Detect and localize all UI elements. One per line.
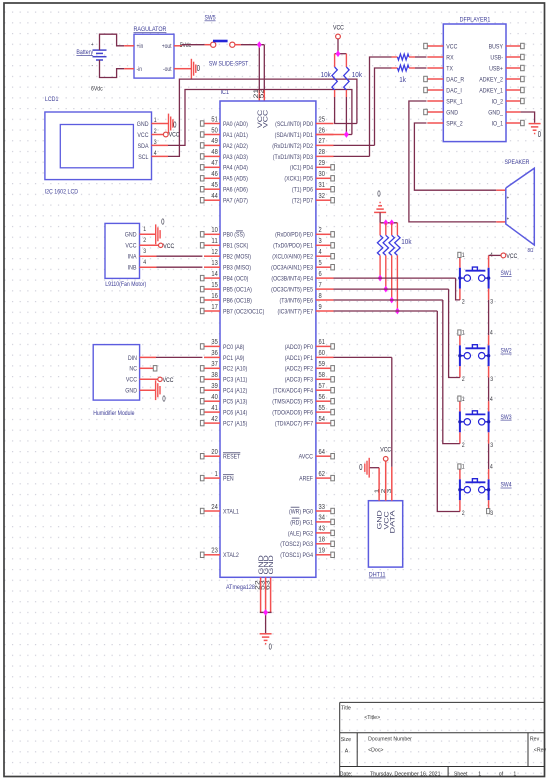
svg-text:13: 13 [211,258,217,267]
svg-text:55: 55 [319,403,325,412]
svg-text:PA7 (AD7): PA7 (AD7) [223,198,248,205]
DHT11 VCC pin [380,446,391,500]
junction at IC1 ground [263,609,268,616]
svg-text:PEN: PEN [223,476,234,483]
svg-text:GND: GND [268,554,275,574]
IC1 pin 33 (WR) PG0 [289,502,334,516]
svg-text:PB5 (OC1A): PB5 (OC1A) [223,287,252,294]
svg-text:(SCL/INT0) PD0: (SCL/INT0) PD0 [275,121,313,128]
svg-text:DATA: DATA [390,509,397,533]
junction R2 at PD1 [344,131,349,138]
svg-text:50: 50 [211,125,217,134]
IC1 pin 11 PB1 (SCK) [200,236,248,250]
wire resistor bank top bus [380,222,397,224]
IC1 pin 43 (ALE) PG2 [288,524,335,538]
IC1 pin 19 (TOSC1) PG4 [280,546,334,560]
svg-text:VCC: VCC [446,43,457,50]
svg-text:64: 64 [319,447,325,456]
svg-text:12: 12 [211,247,217,256]
wire SW2 pin3 to SW3 pin4 [488,378,490,402]
svg-text:AREF: AREF [299,476,313,483]
svg-text:(ALE) PG2: (ALE) PG2 [288,530,313,537]
svg-text:44: 44 [211,191,217,200]
svg-text:2: 2 [462,510,465,517]
IC1 pin 10 PB0 (SS) [200,225,244,239]
svg-text:(TMS/ADC5) PF5: (TMS/ADC5) PF5 [272,399,313,406]
svg-text:36: 36 [211,348,217,357]
wire DFPLAYER GND_ to ground [521,112,535,123]
svg-text:<Rev: <Rev [534,748,546,754]
svg-text:0: 0 [359,463,363,472]
wire DIN to IC1 PC1 [140,356,203,358]
svg-text:SW4: SW4 [501,482,512,489]
label ATmega128 [226,584,255,591]
switch SW1 pushbutton [458,252,512,305]
svg-text:15: 15 [211,280,217,289]
svg-text:(OC3A/AIN1) PE3: (OC3A/AIN1) PE3 [271,265,313,272]
svg-text:43: 43 [319,524,325,533]
IC1 pin 57 (TCK/ADC4) PF4 [273,381,335,395]
svg-text:GND: GND [446,109,458,116]
svg-text:0: 0 [538,130,542,139]
IC U2 DFPLAYER1 body [443,17,506,142]
svg-text:16: 16 [211,291,217,300]
svg-text:0: 0 [173,120,177,129]
sensor U5 DHT11 body [368,489,402,579]
svg-text:SW1: SW1 [501,270,512,277]
wire pull-up top bus [335,53,347,55]
svg-text:(XCL0/AIN0) PE2: (XCL0/AIN0) PE2 [272,254,313,261]
wire SW3 pin3 to SW4 pin4 [488,444,490,470]
DFPLAYER1 right pin ADKEY_1 [479,87,524,94]
IC1 pin 6 (OC3B/INT4) PE4 [271,269,333,283]
svg-text:61: 61 [319,337,325,346]
svg-text:2: 2 [462,442,465,449]
IC1 pin 48 PA3 (AD3) [200,147,248,161]
wire PD0 row to SCL vertical [334,123,357,125]
resistor R1 10k (SCL pull-up) [321,54,338,124]
svg-text:A: A [345,748,349,754]
svg-text:IO_1: IO_1 [492,120,504,127]
svg-text:PC7 (A15): PC7 (A15) [223,421,247,428]
IC1 pin 28 (TxD1/INT3) PD3 [273,147,334,161]
resistor R2 10k (SDA pull-up) [344,54,363,135]
svg-text:PA4 (AD4): PA4 (AD4) [223,165,248,172]
svg-text:VCC: VCC [380,446,391,453]
svg-text:ATmega128: ATmega128 [226,584,255,591]
svg-text:SW5: SW5 [205,15,216,22]
IC1 pin 62 AREF [299,469,334,483]
junction R7 at PE6 [389,297,394,304]
svg-text:PC1 (A9): PC1 (A9) [223,355,244,362]
IC1 pin 64 AVCC [299,447,335,461]
svg-text:41: 41 [211,403,217,412]
wire R4 to DFPLAYER TX [415,67,427,69]
module U4 Humidifier body [93,345,139,417]
svg-text:SPEAKER: SPEAKER [505,159,530,166]
IC1 pin 27 (RxD1/INT2) PD2 [272,136,333,150]
DFPLAYER1 left pin GND [424,109,458,116]
svg-text:SCL: SCL [138,154,149,161]
svg-text:0: 0 [197,64,201,73]
DFPLAYER1 left pin DAC_R [424,76,465,83]
svg-text:PA0 (AD0): PA0 (AD0) [223,121,248,128]
svg-text:SW2: SW2 [501,348,512,355]
svg-text:VCC: VCC [163,377,174,384]
IC1 pin 59 (ADC2) PF2 [285,359,335,373]
svg-text:3: 3 [490,376,493,383]
svg-text:11: 11 [211,236,217,245]
svg-text:GND_: GND_ [488,109,503,116]
svg-text:PC0 (A8): PC0 (A8) [223,344,244,351]
DFPLAYER1 right pin ADKEY_2 [479,76,524,83]
svg-text:17: 17 [211,302,217,311]
svg-text:<Doc>: <Doc> [368,748,384,754]
svg-text:INB: INB [128,265,137,272]
switch SW2 pushbutton [458,330,512,383]
svg-text:(ADC3) PF3: (ADC3) PF3 [285,377,314,384]
svg-text:1k: 1k [399,77,406,84]
wire INB to IC1 PB3 [140,266,203,268]
wire RxD: IC1 PD3 to R3 [334,57,392,156]
svg-text:1: 1 [513,771,516,777]
junction R5 at PE4 [378,275,383,282]
svg-text:(XCK1) PD5: (XCK1) PD5 [284,176,313,183]
svg-text:PC5 (A13): PC5 (A13) [223,399,247,406]
svg-text:56: 56 [319,392,325,401]
svg-text:PB2 (MOSI): PB2 (MOSI) [223,254,251,261]
wire INA to IC1 PB2 [140,255,203,257]
ground 0 at DFPLAYER GND_ [529,124,542,139]
LCD1 pin2 VCC symbol [152,132,180,139]
svg-text:BUSY: BUSY [489,43,504,50]
svg-text:SPK_1: SPK_1 [446,98,463,105]
svg-text:+in: +in [137,43,144,50]
svg-text:59: 59 [319,359,325,368]
IC1 pin 17 PB7 (OC2/OC1C) [200,302,264,316]
ground 0 above resistor bank [374,190,386,223]
IC1 GND pins to ground wires [260,577,272,634]
IC1 pin 44 PA7 (AD7) [200,191,248,205]
svg-text:+out: +out [162,43,172,50]
IC1 pin 13 PB3 (MISO) [204,258,251,272]
IC1 pin 20 RESET [200,447,240,461]
IC1 pin 61 (ADC0) PF0 [285,337,335,351]
svg-text:PB3 (MISO): PB3 (MISO) [223,265,251,272]
svg-text:39: 39 [211,381,217,390]
svg-text:25: 25 [319,114,325,123]
svg-text:Size: Size [341,737,351,743]
svg-text:PA6 (AD6): PA6 (AD6) [223,187,248,194]
svg-text:PC4 (A12): PC4 (A12) [223,388,247,395]
svg-text:45: 45 [211,180,217,189]
IC1 pin 32 (T2) PD7 [292,191,335,205]
IC1 pin 51 PA0 (AD0) [200,114,248,128]
svg-text:30: 30 [319,169,325,178]
switch SW4 pushbutton [458,464,512,517]
LCD1 I2C 1602 LCD body [45,96,157,195]
svg-text:SDA: SDA [138,143,149,150]
IC1 pin 41 PC6 (A14) [200,403,247,417]
DFPLAYER1 right pin GND_ [488,109,520,116]
IC1 pin 38 PC3 (A11) [200,370,247,384]
svg-text:32: 32 [319,191,325,200]
svg-text:2: 2 [462,299,465,306]
VCC symbol at SW1 pin4 [489,253,518,260]
svg-text:1: 1 [462,396,465,403]
resistor R5 10k (SW1 pull-down) [377,223,382,278]
IC1 pin 5 (OC3A/AIN1) PE3 [271,258,334,272]
svg-text:VCC: VCC [126,377,137,384]
svg-text:1: 1 [462,252,465,259]
svg-text:(TxD0/PDO) PE1: (TxD0/PDO) PE1 [273,243,313,250]
IC1 pin 39 PC4 (A12) [200,381,247,395]
svg-text:(RxD1/INT2) PD2: (RxD1/INT2) PD2 [272,143,313,150]
resistor R4 1k (TX line) [392,65,416,84]
resistor R3 1k (RX line) [392,54,416,60]
svg-text:IO_2: IO_2 [492,98,504,105]
svg-text:VCC: VCC [263,109,270,128]
svg-text:RX: RX [446,54,454,61]
svg-text:57: 57 [319,381,325,390]
DFPLAYER1 left pin TX [427,65,453,72]
svg-text:(SDA/INT1) PD1: (SDA/INT1) PD1 [275,132,314,139]
svg-text:1: 1 [462,330,465,337]
IC1 pin 37 PC2 (A10) [200,359,247,373]
svg-text:(IC1) PD4: (IC1) PD4 [290,165,313,172]
wire SPK_1: DFPLAYER to speaker bottom [409,101,506,222]
IC1 pin 26 (SDA/INT1) PD1 [275,125,334,139]
IC1 pin 56 (TMS/ADC5) PF5 [272,392,334,406]
IC1 pin 12 PB2 (MOSI) [204,247,251,261]
svg-text:PA3 (AD3): PA3 (AD3) [223,154,248,161]
svg-text:DHT11: DHT11 [369,572,386,579]
svg-text:SW3: SW3 [501,414,512,421]
svg-text:PB6 (OC1B): PB6 (OC1B) [223,297,252,304]
svg-text:+: + [91,42,94,48]
svg-text:PB4 (OC0): PB4 (OC0) [223,276,248,283]
svg-text:ADKEY_2: ADKEY_2 [479,76,503,83]
svg-text:40: 40 [211,392,217,401]
svg-text:TX: TX [446,65,453,72]
svg-text:DFPLAYER1: DFPLAYER1 [460,17,491,24]
ground 0 below IC1 [260,634,273,652]
resistor R6 10k (SW2 pull-down) [383,223,388,289]
IC IC1 ATmega128 body [220,89,316,577]
IC1 pin 8 (T3/INT6) PE6 [280,291,334,305]
svg-text:34: 34 [319,513,325,522]
switch SW3 pushbutton [458,396,512,449]
DFPLAYER1 left pin RX [427,54,454,61]
svg-text:SW SLIDE-SPST: SW SLIDE-SPST [209,61,249,68]
svg-text:1: 1 [143,226,146,233]
svg-text:(IC3/INT7) PE7: (IC3/INT7) PE7 [278,308,314,315]
IC1 pin 29 (IC1) PD4 [290,158,335,172]
svg-text:5: 5 [319,258,322,267]
IC1 pin 15 PB5 (OC1A) [200,280,252,294]
svg-text:RESET: RESET [223,454,240,461]
DFPLAYER1 right pin USB+ [489,65,524,72]
svg-text:VCC: VCC [169,132,180,139]
title block [340,702,546,777]
IC1 pin 34 (RD) PG1 [290,513,334,527]
svg-text:23: 23 [211,546,217,555]
svg-text:4: 4 [490,396,493,403]
DFPLAYER1 right pin IO_1 [492,120,525,127]
svg-text:Date:: Date: [340,771,353,777]
svg-text:10: 10 [211,225,217,234]
svg-text:-: - [92,64,94,70]
IC1 pin 1 PEN [200,469,234,483]
wire VCC net: SW5 to IC1 VCC pins [241,45,264,101]
svg-text:of: of [499,771,504,777]
svg-text:28: 28 [319,147,325,156]
svg-text:62: 62 [319,469,325,478]
svg-text:Thursday, December 16, 2021: Thursday, December 16, 2021 [370,771,441,777]
svg-text:PA5 (AD5): PA5 (AD5) [223,176,248,183]
svg-text:14: 14 [211,269,217,278]
svg-text:GND: GND [125,388,137,395]
svg-text:GND: GND [137,121,149,128]
svg-text:5Vdc: 5Vdc [180,42,191,49]
IC1 pin 9 (IC3/INT7) PE7 [278,302,334,316]
svg-text:(TCK/ADC4) PF4: (TCK/ADC4) PF4 [273,388,314,395]
wire SCL: LCD1 to IC1 PD0 [152,79,357,156]
IC1 pin 14 PB4 (OC0) [200,269,248,283]
IC1 pin 60 (ADC1) PF1 [285,348,334,362]
DFPLAYER1 right pin IO_2 [492,98,525,105]
svg-text:49: 49 [211,136,217,145]
svg-text:3: 3 [490,510,493,517]
wire SPK_2: DFPLAYER to speaker top [414,123,505,190]
LCD1 pin1 GND to ground [152,114,177,134]
DFPLAYER1 right pin BUSY [489,43,525,50]
IC1 pin 7 (OC3C/INT5) PE5 [271,280,333,294]
IC1 pin 30 (XCK1) PD5 [284,169,334,183]
junction at VCC wire [257,41,262,48]
svg-text:PC2 (A10): PC2 (A10) [223,366,247,373]
svg-text:<Title>: <Title> [364,715,381,721]
svg-text:42: 42 [211,414,217,423]
IC1 pin 49 PA2 (AD2) [200,136,248,150]
svg-text:4: 4 [319,247,322,256]
svg-text:58: 58 [319,370,325,379]
svg-text:27: 27 [319,136,325,145]
wire PE4 to SW1 pin2 [334,278,460,300]
svg-text:Rev: Rev [530,737,539,743]
svg-text:(OC3C/INT5) PE5: (OC3C/INT5) PE5 [271,287,313,294]
svg-text:L9110(Fan Motor): L9110(Fan Motor) [105,281,146,288]
junction bank bus a [383,219,388,226]
svg-text:4: 4 [490,330,493,337]
IC1 pin 35 PC0 (A8) [200,337,244,351]
svg-text:19: 19 [319,546,325,555]
junction bank bus b [389,219,394,226]
svg-text:Title: Title [341,705,351,711]
svg-text:PB1 (SCK): PB1 (SCK) [223,243,248,250]
ground 0 at humidifier GND [140,380,166,403]
svg-text:(TDI/ADC7) PF7: (TDI/ADC7) PF7 [275,421,313,428]
wire DATA: DHT11 to IC1 PF1 [334,357,392,500]
svg-text:(WR) PG0: (WR) PG0 [289,508,313,515]
regulator RAGULATOR [124,26,182,78]
svg-text:38: 38 [211,370,217,379]
svg-text:9: 9 [319,302,322,311]
IC1 pin 25 (SCL/INT0) PD0 [275,114,333,128]
svg-text:INA: INA [128,254,137,261]
svg-text:PA2 (AD2): PA2 (AD2) [223,143,248,150]
svg-text:0: 0 [269,642,273,651]
svg-text:29: 29 [319,158,325,167]
svg-text:(TOSC2) PG3: (TOSC2) PG3 [280,541,313,548]
IC1 pin 42 PC7 (A15) [200,414,247,428]
svg-text:SPK_2: SPK_2 [446,120,463,127]
IC1 pin 50 PA1 (AD1) [200,125,248,139]
svg-text:+: + [507,217,509,223]
IC1 pin 3 (TxD0/PDO) PE1 [273,236,334,250]
svg-text:0: 0 [377,190,381,199]
wire TxD: IC1 PD2 to R4 [334,68,392,145]
IC1 pin 54 (TDI/ADC7) PF7 [275,414,335,428]
wire PD1 row to SDA vertical [316,134,352,136]
svg-text:USB+: USB+ [489,65,503,72]
label 5Vdc [180,42,191,49]
svg-text:(ADC1) PF1: (ADC1) PF1 [285,355,314,362]
wire SW1 pin3 to SW2 pin4 [488,300,490,335]
svg-text:DIN: DIN [128,355,137,362]
ground 0 at L9110 GND [140,218,165,245]
svg-text:0: 0 [161,218,165,227]
svg-text:8Ω: 8Ω [528,248,534,254]
svg-text:8: 8 [319,291,322,300]
humidifier NC pin open [140,366,157,371]
svg-text:47: 47 [211,158,217,167]
svg-text:10k: 10k [401,239,412,246]
wire R3 to DFPLAYER RX [415,56,427,58]
svg-text:LCD1: LCD1 [45,96,59,103]
svg-text:Sheet: Sheet [454,771,468,777]
IC1 pin 16 PB6 (OC1B) [200,291,252,305]
svg-text:(T3/INT6) PE6: (T3/INT6) PE6 [280,297,314,304]
IC1 pin 2 (RxD0/PDI) PE0 [275,225,334,239]
svg-text:(ADC2) PF2: (ADC2) PF2 [285,366,314,373]
svg-text:(T2) PD7: (T2) PD7 [292,198,313,205]
svg-text:18: 18 [319,535,325,544]
svg-text:(TDO/ADC6) PF6: (TDO/ADC6) PF6 [272,410,313,417]
svg-text:0: 0 [162,395,166,404]
IC1 pin 58 (ADC3) PF3 [285,370,335,384]
svg-text:USB-: USB- [490,54,503,61]
DFPLAYER1 left pin VCC [424,43,458,50]
svg-text:10k: 10k [321,72,332,79]
svg-text:+: + [507,196,509,202]
svg-text:(T1) PD6: (T1) PD6 [292,187,313,194]
svg-text:6Vdc: 6Vdc [91,86,103,93]
svg-text:VCC: VCC [137,132,148,139]
svg-text:10k: 10k [352,72,363,79]
svg-text:XTAL1: XTAL1 [223,508,239,515]
svg-text:3: 3 [490,299,493,306]
svg-text:(OC3B/INT4) PE4: (OC3B/INT4) PE4 [271,276,313,283]
svg-text:PB0 (SS): PB0 (SS) [223,232,245,239]
svg-text:24: 24 [211,502,217,511]
svg-text:4: 4 [143,259,146,266]
svg-text:GND: GND [125,232,137,239]
svg-text:1: 1 [478,771,481,777]
svg-text:VCC: VCC [125,243,136,250]
VCC symbol at humidifier [140,377,174,384]
resistor R7 10k (SW3 pull-down) [389,223,394,300]
